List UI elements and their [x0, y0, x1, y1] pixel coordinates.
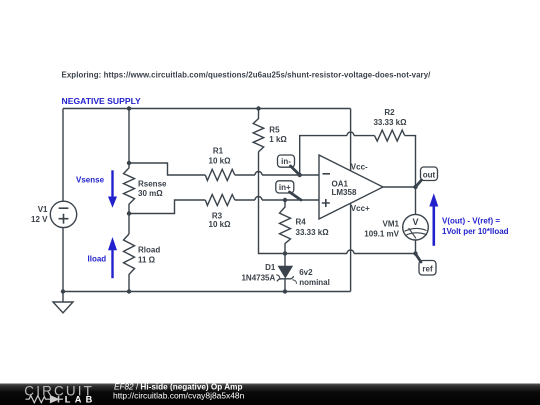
wire Rsense branch top — [128, 109, 130, 164]
svg-text:R1: R1 — [213, 147, 224, 156]
voltmeter VM1 — [403, 214, 429, 240]
ground — [62, 292, 64, 303]
resistor R3 10k — [205, 195, 235, 206]
resistor R1 10k — [205, 169, 235, 180]
wire R3 to op-amp in+ with hop over R5 line — [235, 199, 255, 201]
svg-text:33.33 kΩ: 33.33 kΩ — [373, 118, 407, 127]
wire Vcc+ to ground rail — [350, 203, 352, 291]
svg-text:VM1: VM1 — [383, 219, 400, 228]
svg-text:1 kΩ: 1 kΩ — [269, 135, 287, 144]
svg-text:Rsense: Rsense — [138, 180, 167, 189]
svg-text:Exploring: https://www.circuit: Exploring: https://www.circuitlab.com/qu… — [62, 70, 432, 79]
circuitlab logo zigzag and diode — [26, 396, 64, 403]
wire op-amp output — [383, 186, 416, 188]
svg-text:Iload: Iload — [88, 254, 107, 263]
wire R3 jog from Rsense bottom — [129, 200, 205, 214]
leader curve 6v2 label — [292, 280, 296, 284]
svg-text:R3: R3 — [212, 211, 223, 220]
node label in+ — [276, 181, 294, 193]
svg-text:109.1 mV: 109.1 mV — [364, 229, 399, 238]
svg-text:30 mΩ: 30 mΩ — [138, 189, 163, 198]
node label in- — [278, 155, 295, 167]
node label ref — [419, 261, 436, 276]
wire VM1 bottom to ref node — [415, 240, 417, 254]
zener diode D1 1N4735A — [284, 254, 286, 267]
op-amp OA1 LM358 — [319, 155, 383, 219]
resistor R4 33.33k — [280, 200, 291, 254]
svg-text:nominal: nominal — [299, 278, 330, 287]
svg-text:11 Ω: 11 Ω — [138, 255, 156, 264]
svg-text:V: V — [412, 217, 418, 227]
svg-text:33.33 kΩ: 33.33 kΩ — [296, 228, 330, 237]
resistor R5 1k — [253, 109, 264, 152]
svg-text:ref: ref — [422, 264, 433, 273]
svg-text:Rload: Rload — [138, 246, 160, 255]
svg-text:NEGATIVE SUPPLY: NEGATIVE SUPPLY — [62, 96, 142, 106]
svg-text:10 kΩ: 10 kΩ — [209, 156, 232, 165]
annotation arrow Iload — [108, 237, 117, 278]
voltage source V1 — [50, 201, 76, 227]
annotation arrow Vsense — [108, 170, 117, 208]
wire R1 to op-amp in- with hop over R5 line — [235, 174, 255, 176]
svg-text:http://circuitlab.com/cvay8j8a: http://circuitlab.com/cvay8j8a5x48n — [113, 391, 245, 401]
svg-text:V(out) - V(ref) =: V(out) - V(ref) = — [442, 217, 500, 226]
resistor Rsense 30 mOhm — [124, 163, 135, 214]
svg-text:6v2: 6v2 — [299, 268, 313, 277]
wire top rail negative supply — [63, 108, 351, 110]
wire bottom ground rail — [63, 291, 351, 293]
svg-text:D1: D1 — [265, 263, 276, 272]
svg-text:R2: R2 — [384, 108, 395, 117]
wire feedback tap from in- — [300, 136, 347, 175]
wire V1 bottom — [62, 228, 64, 292]
svg-text:12 V: 12 V — [31, 215, 48, 224]
svg-text:V1: V1 — [38, 205, 48, 214]
resistor R2 33.33k — [375, 130, 405, 141]
wire R1 jog from Rsense top — [129, 163, 205, 175]
svg-text:1Volt per 10*Iload: 1Volt per 10*Iload — [442, 227, 509, 236]
svg-text:10 kΩ: 10 kΩ — [209, 220, 232, 229]
svg-text:Vcc+: Vcc+ — [351, 204, 370, 213]
wire R2 right down to out — [405, 136, 416, 187]
annotation arrow V(out) — [429, 193, 438, 246]
svg-text:1N4735A: 1N4735A — [241, 273, 275, 282]
svg-text:LAB: LAB — [65, 394, 93, 404]
wire out to VM1 — [415, 187, 417, 214]
leader curve D1 label — [276, 275, 280, 280]
svg-text:R5: R5 — [269, 126, 280, 135]
node label out — [421, 167, 438, 181]
svg-text:R4: R4 — [296, 217, 307, 226]
wire Rsense bottom to Rload — [128, 214, 130, 235]
wire R5 down through hops to ref node — [259, 152, 286, 254]
svg-text:Vsense: Vsense — [76, 175, 105, 184]
wire Vcc- to top rail — [350, 109, 352, 171]
svg-text:LM358: LM358 — [332, 188, 357, 197]
svg-text:out: out — [423, 170, 436, 179]
wire left rail V1 top — [62, 109, 64, 202]
resistor Rload 11 Ohm — [124, 234, 135, 292]
svg-text:Vcc-: Vcc- — [351, 163, 368, 172]
wire ref node to VM1 bottom with hop over Vcc+ — [285, 253, 347, 255]
